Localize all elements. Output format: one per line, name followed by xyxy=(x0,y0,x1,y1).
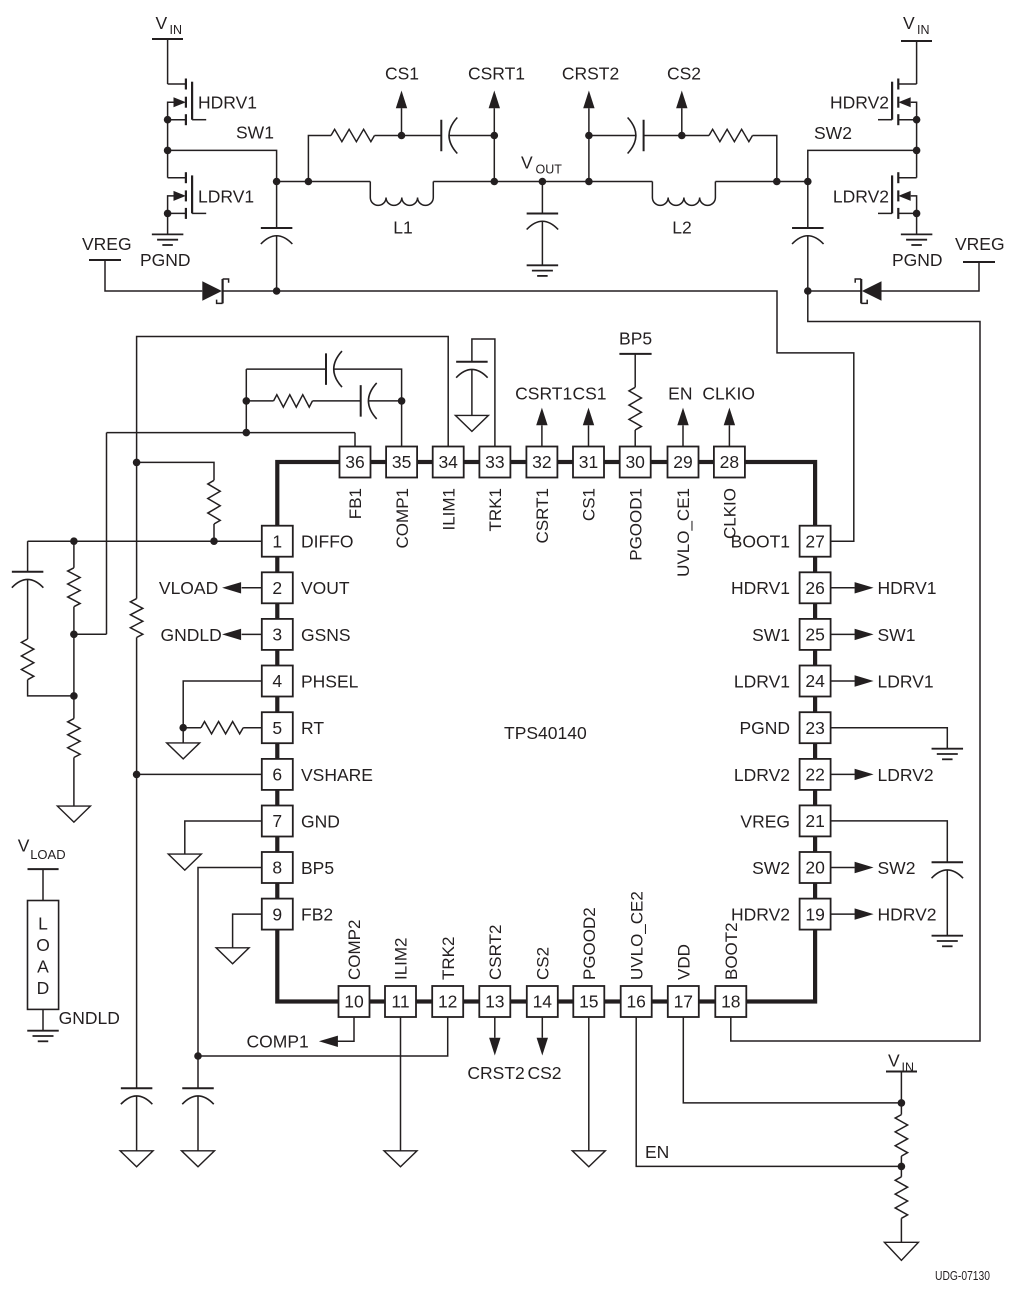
svg-text:HDRV1: HDRV1 xyxy=(878,578,937,598)
resistor R6 feed-forward xyxy=(21,639,33,680)
ground GND pin xyxy=(168,854,201,870)
wire R8 to ground xyxy=(73,758,75,807)
svg-text:9: 9 xyxy=(272,904,282,924)
wire R11 to R12 xyxy=(900,1156,902,1177)
svg-text:3: 3 xyxy=(272,625,282,645)
wire R9 to pin 5 xyxy=(243,727,262,729)
svg-text:30: 30 xyxy=(625,452,645,472)
wire pin35 COMP1 stub xyxy=(401,401,403,447)
wire Q1 source to SW1 node xyxy=(167,120,169,178)
label LDRV2 (Q4) xyxy=(833,186,889,206)
svg-text:HDRV2: HDRV2 xyxy=(878,905,937,925)
arrow CS1 xyxy=(396,91,407,136)
capacitor C3 output xyxy=(527,182,559,266)
wire Q4 source to PGND xyxy=(916,213,918,234)
svg-text:HDRV1: HDRV1 xyxy=(731,578,790,598)
resistor R4 PGOOD1 pull-up xyxy=(629,387,641,430)
arrow CSRT2 down (pin 13) xyxy=(489,1017,500,1056)
svg-text:22: 22 xyxy=(805,765,824,785)
resistor R11 UVLO divider top xyxy=(895,1115,907,1157)
ground UVLO divider xyxy=(884,1242,918,1260)
wire VIN to R11 xyxy=(900,1072,902,1115)
svg-text:UDG-07130: UDG-07130 xyxy=(935,1268,990,1283)
wire pin15 PGOOD2 to ground xyxy=(588,1017,590,1151)
ground PGND pin xyxy=(932,749,964,760)
svg-text:10: 10 xyxy=(344,992,364,1012)
label CS2 net (bottom) xyxy=(528,1063,562,1083)
resistor R2 current sense (channel 2) xyxy=(709,129,752,141)
resistor R12 UVLO divider bottom xyxy=(895,1177,907,1219)
svg-text:CSRT1: CSRT1 xyxy=(468,64,525,84)
ground PGOOD2 xyxy=(572,1151,605,1167)
svg-text:29: 29 xyxy=(673,452,692,472)
junction ILIM1/feedback resistor xyxy=(133,459,141,467)
svg-text:BOOT1: BOOT1 xyxy=(731,532,790,552)
label CSRT1 net (top) xyxy=(515,384,572,404)
arrow CSRT1 xyxy=(489,91,500,136)
svg-text:12: 12 xyxy=(438,992,457,1012)
svg-text:HDRV2: HDRV2 xyxy=(830,93,889,113)
svg-text:CLKIO: CLKIO xyxy=(702,384,755,404)
svg-text:GND: GND xyxy=(301,811,340,831)
wire pin23 PGND xyxy=(831,728,948,749)
node SW2 xyxy=(804,123,852,185)
svg-text:7: 7 xyxy=(272,811,282,831)
resistor R9 RT xyxy=(201,722,243,734)
svg-text:CS2: CS2 xyxy=(667,64,701,84)
wire pin11 ILIM2 to ground xyxy=(400,1017,402,1151)
op-amp U1 TPS40140 controller body xyxy=(277,462,815,1002)
svg-text:15: 15 xyxy=(579,992,598,1012)
wire R1 to CS1 node xyxy=(375,135,402,137)
svg-text:14: 14 xyxy=(533,992,553,1012)
svg-text:8: 8 xyxy=(272,858,282,878)
wire pin36 FB1 stub xyxy=(354,433,356,447)
svg-text:RT: RT xyxy=(301,718,324,738)
label LDRV1 net (right) xyxy=(878,671,934,691)
svg-text:SW1: SW1 xyxy=(236,123,274,143)
wire DIFFO line (pin 1) xyxy=(28,540,262,542)
svg-text:L: L xyxy=(38,914,48,934)
svg-text:HDRV2: HDRV2 xyxy=(731,905,790,925)
svg-text:COMP2: COMP2 xyxy=(345,920,364,980)
svg-text:LDRV1: LDRV1 xyxy=(878,671,934,691)
svg-text:36: 36 xyxy=(345,452,364,472)
junction divider low tap xyxy=(70,692,78,700)
svg-text:18: 18 xyxy=(721,992,740,1012)
node VLOAD source xyxy=(18,836,66,870)
wire R6 to divider tap xyxy=(28,680,74,696)
svg-text:VDD: VDD xyxy=(675,944,694,980)
svg-text:13: 13 xyxy=(485,992,504,1012)
wire CS2 to R2 xyxy=(682,135,709,137)
svg-text:ILIM2: ILIM2 xyxy=(392,937,411,980)
wire CRST2 to VOUT line xyxy=(585,136,593,186)
svg-text:25: 25 xyxy=(805,625,824,645)
svg-text:CS1: CS1 xyxy=(385,64,419,84)
capacitor C8 soft-start TRK1 xyxy=(456,362,488,416)
ground ILIM2 xyxy=(384,1151,417,1167)
svg-text:VREG: VREG xyxy=(740,811,790,831)
ground TRK1 cap xyxy=(455,415,488,431)
label EN net (top) xyxy=(668,384,692,404)
svg-text:35: 35 xyxy=(392,452,411,472)
junction FB1 tap xyxy=(70,631,78,639)
svg-text:PHSEL: PHSEL xyxy=(301,671,359,691)
ground C12 xyxy=(932,936,964,947)
wire pin21 VREG to C12 xyxy=(831,821,948,862)
wire VOUT line (L1 to L2) xyxy=(433,181,652,183)
svg-text:11: 11 xyxy=(391,992,409,1012)
wire pin33 TRK1 stub xyxy=(472,339,495,447)
svg-text:D: D xyxy=(37,978,50,998)
wire R4 to pin 30 xyxy=(634,430,636,447)
wire R5 branch xyxy=(137,462,214,480)
svg-text:33: 33 xyxy=(485,452,504,472)
svg-text:UVLO_CE1: UVLO_CE1 xyxy=(674,488,693,577)
ground output cap xyxy=(527,265,559,276)
svg-text:PGOOD2: PGOOD2 xyxy=(580,907,599,980)
wire pin9 FB2 xyxy=(233,914,262,948)
arrow CLKIO (pin 28) xyxy=(724,408,735,447)
U1 top pin-name labels (rotated) xyxy=(346,488,739,577)
svg-text:UVLO_CE2: UVLO_CE2 xyxy=(627,891,646,980)
junction Q2 source/body xyxy=(164,210,172,218)
junction SW1 side of L1 xyxy=(305,178,313,186)
resistor R10 ILIM1 rail xyxy=(130,599,142,638)
svg-text:PGND: PGND xyxy=(140,250,191,270)
svg-text:V: V xyxy=(18,836,30,856)
node BP5 supply xyxy=(619,329,652,354)
resistor R3 compensation xyxy=(274,395,313,407)
svg-text:16: 16 xyxy=(626,992,645,1012)
junction EN tap xyxy=(898,1163,906,1171)
arrow EN (pin 29) xyxy=(677,408,688,447)
svg-text:FB2: FB2 xyxy=(301,905,333,925)
junction SW1/C1 xyxy=(273,178,281,186)
U1 right pin-name labels xyxy=(731,532,790,925)
wire SW1 node to L1 xyxy=(277,181,371,183)
arrow GNDLD (pin 3) xyxy=(222,629,262,640)
arrow CSRT1 (pin 32) xyxy=(536,408,547,447)
svg-text:V: V xyxy=(903,13,915,33)
svg-text:4: 4 xyxy=(272,671,282,691)
svg-text:LDRV1: LDRV1 xyxy=(734,671,790,691)
label GNDLD xyxy=(59,1008,120,1028)
svg-text:LDRV1: LDRV1 xyxy=(198,186,254,206)
svg-text:SW2: SW2 xyxy=(814,123,852,143)
svg-text:19: 19 xyxy=(805,904,824,924)
wire C7 to COMP1 node xyxy=(369,400,402,402)
node A compensation (FB1) xyxy=(243,429,251,437)
junction DIFFO/R5 xyxy=(210,537,218,545)
svg-text:VSHARE: VSHARE xyxy=(301,765,373,785)
wire VIN to Q3 drain xyxy=(916,41,918,84)
svg-text:PGOOD1: PGOOD1 xyxy=(626,488,645,561)
label CRST2 net (bottom) xyxy=(467,1063,524,1083)
svg-text:GNDLD: GNDLD xyxy=(161,625,222,645)
svg-text:O: O xyxy=(36,935,50,955)
junction Q4 source/body xyxy=(913,210,921,218)
arrow VLOAD (pin 2) xyxy=(222,582,262,593)
svg-text:6: 6 xyxy=(272,765,282,785)
svg-text:VREG: VREG xyxy=(955,234,1005,254)
svg-text:31: 31 xyxy=(579,452,598,472)
wire divider mid xyxy=(73,607,75,719)
junction DIFFO/divider xyxy=(70,537,78,545)
wire R3 to C7 xyxy=(313,400,361,402)
resistor R7 feedback divider top xyxy=(68,568,80,607)
U1 left pin-name labels xyxy=(301,532,373,925)
svg-text:PGND: PGND xyxy=(892,250,943,270)
label CS1 net (top) xyxy=(572,384,606,404)
label HDRV2 (Q3) xyxy=(830,93,889,113)
wire RT node to ground xyxy=(182,728,184,743)
wire FB1 tap to FB1 net xyxy=(74,633,107,635)
wire pin10 COMP2 to COMP1 arrow xyxy=(337,1017,354,1041)
wire SW1 to bootstrap cap C1 xyxy=(168,150,277,181)
wire FB1 net xyxy=(107,433,356,635)
arrow CRST2 xyxy=(583,91,594,136)
wire comp lower branch left xyxy=(246,400,273,402)
wire VLOAD to LOAD xyxy=(42,869,44,900)
wire DIFFO corner to C9 xyxy=(27,541,29,572)
arrow LDRV2 output (pin 22) xyxy=(831,769,874,780)
wire divider top xyxy=(73,541,75,568)
arrow CS1 (pin 31) xyxy=(583,408,594,447)
node SW1 xyxy=(164,123,274,155)
arrow SW2 output (pin 20) xyxy=(831,862,874,873)
wire CRST2 to C4 xyxy=(589,135,636,137)
resistor R5 ILIM1 set xyxy=(208,480,220,524)
junction VSHARE/ILIM1 rail xyxy=(133,771,141,779)
node VIN (channel 1 input supply) xyxy=(152,13,183,39)
wire pin17 VDD to VIN xyxy=(683,1017,901,1103)
svg-text:COMP1: COMP1 xyxy=(393,488,412,548)
junction Q3 source/body xyxy=(913,116,921,124)
wire pin16 UVLO_CE2 EN net xyxy=(636,1017,901,1166)
svg-text:26: 26 xyxy=(805,578,824,598)
svg-text:21: 21 xyxy=(805,811,824,831)
svg-text:1: 1 xyxy=(272,531,282,551)
wire C5 to D2 cathode xyxy=(808,290,861,292)
junction comp lower branch xyxy=(243,397,251,405)
wire SW1 to R1 xyxy=(308,136,331,182)
wire Q3 source to SW2 xyxy=(916,120,918,178)
svg-text:20: 20 xyxy=(805,858,825,878)
label LDRV2 net (right) xyxy=(878,765,934,785)
label HDRV2 net (right) xyxy=(878,905,937,925)
wire L2 to SW2 node xyxy=(715,181,807,183)
svg-text:LDRV2: LDRV2 xyxy=(833,186,889,206)
svg-text:BP5: BP5 xyxy=(619,329,652,349)
svg-text:TPS40140: TPS40140 xyxy=(504,723,587,743)
svg-text:SW1: SW1 xyxy=(752,625,790,645)
svg-text:CSRT2: CSRT2 xyxy=(486,925,505,980)
svg-text:GNDLD: GNDLD xyxy=(59,1008,120,1028)
wire SW2 node to Q3/Q4 rail xyxy=(808,147,921,182)
label U1 TPS40140 xyxy=(504,723,587,743)
svg-text:CS1: CS1 xyxy=(580,488,599,521)
wire pin8 BP5 xyxy=(198,868,262,1089)
junction Q1 source/body xyxy=(164,116,172,124)
wire VREG to D2 anode xyxy=(882,262,980,291)
label UDG-07130 xyxy=(935,1268,990,1283)
wire RT node xyxy=(179,724,201,732)
wire LOAD to GNDLD xyxy=(42,1009,44,1030)
wire pin12 TRK2 to BP5 xyxy=(198,1017,448,1056)
svg-text:HDRV1: HDRV1 xyxy=(198,93,257,113)
transistor Q2 LDRV1 low-side NFET xyxy=(168,172,207,219)
node COMP1 (pin 35) xyxy=(398,397,406,405)
ground C11 xyxy=(182,1151,215,1167)
svg-text:34: 34 xyxy=(438,452,458,472)
svg-text:GSNS: GSNS xyxy=(301,625,351,645)
wire Q2 source to PGND xyxy=(167,213,169,234)
wire D1 cathode to C1 xyxy=(223,290,277,292)
node VIN (channel 2 input supply) xyxy=(901,13,932,41)
U1 pin boxes with pin numbers xyxy=(262,447,831,1018)
svg-text:TRK1: TRK1 xyxy=(486,488,505,531)
svg-text:ILIM1: ILIM1 xyxy=(439,488,458,531)
svg-text:IN: IN xyxy=(917,23,930,37)
node CRST2 xyxy=(562,64,619,140)
arrow HDRV2 output (pin 19) xyxy=(831,908,874,919)
label CLKIO net (top) xyxy=(702,384,755,404)
ground PGND (channel 2) xyxy=(892,234,943,269)
capacitor C2 current sense (channel 1) xyxy=(441,118,457,154)
wire R2 to SW2 side of L2 xyxy=(753,136,781,186)
wire BP5 to R4 xyxy=(634,354,636,387)
capacitor C12 VREG bypass xyxy=(932,862,964,936)
transistor Q3 HDRV2 high-side NFET xyxy=(878,79,917,126)
capacitor C4 current sense (channel 2) xyxy=(628,118,644,154)
ground feedback divider xyxy=(57,806,90,822)
svg-text:L2: L2 xyxy=(672,218,691,238)
svg-text:27: 27 xyxy=(805,531,824,551)
inductor L2 xyxy=(652,182,715,238)
block LOAD xyxy=(28,901,59,1010)
wire ILIM1 rail lower xyxy=(136,638,138,1089)
junction VDD/VIN xyxy=(898,1099,906,1107)
svg-text:EN: EN xyxy=(645,1142,669,1162)
svg-text:L1: L1 xyxy=(393,218,412,238)
svg-text:28: 28 xyxy=(720,452,739,472)
wire C2 to CSRT1 node xyxy=(449,135,494,137)
svg-text:FB1: FB1 xyxy=(346,488,365,519)
svg-text:17: 17 xyxy=(674,992,693,1012)
wire pin4 PHSEL to RT node xyxy=(183,681,262,728)
svg-text:BP5: BP5 xyxy=(301,858,334,878)
svg-text:OUT: OUT xyxy=(536,163,563,177)
svg-text:5: 5 xyxy=(272,718,282,738)
wire comp top branch right xyxy=(334,369,402,401)
node VOUT xyxy=(521,153,562,186)
wire VIN to Q1 drain xyxy=(167,39,169,84)
capacitor C1 bootstrap (channel 1) xyxy=(261,182,293,292)
svg-text:SW2: SW2 xyxy=(878,858,916,878)
wire pin6 VSHARE xyxy=(137,773,262,775)
svg-text:CS2: CS2 xyxy=(528,1063,562,1083)
wire node A to comp network xyxy=(245,369,247,433)
diode D1 schottky bootstrap xyxy=(202,279,228,303)
transistor Q4 LDRV2 low-side NFET xyxy=(878,172,917,219)
capacitor C7 compensation xyxy=(361,383,377,419)
node VREG (channel 2) xyxy=(955,234,1005,262)
svg-text:32: 32 xyxy=(532,452,551,472)
wire CS1 to C2 xyxy=(402,135,442,137)
node CS1 xyxy=(385,64,419,140)
resistor R1 current sense (channel 1) xyxy=(331,129,374,141)
arrow CS2 down (pin 14) xyxy=(537,1017,548,1056)
capacitor C10 VSHARE filter xyxy=(121,1088,153,1151)
U1 bottom pin-name labels (rotated) xyxy=(345,891,741,980)
svg-text:V: V xyxy=(521,153,533,173)
label COMP1 net xyxy=(247,1032,309,1052)
wire R12 to ground xyxy=(900,1218,902,1242)
svg-text:VREG: VREG xyxy=(82,234,132,254)
svg-text:COMP1: COMP1 xyxy=(247,1032,309,1052)
svg-text:SW1: SW1 xyxy=(878,625,916,645)
wire pin34 ILIM1 to left rail xyxy=(137,337,449,599)
arrow COMP1 (from pin 10) xyxy=(319,1036,338,1047)
ground RT xyxy=(167,743,200,759)
arrow SW1 output (pin 25) xyxy=(831,629,874,640)
svg-text:CSRT1: CSRT1 xyxy=(515,384,572,404)
label HDRV1 (Q1) xyxy=(198,93,257,113)
ground FB2 xyxy=(216,948,249,964)
resistor R8 feedback divider bottom xyxy=(68,719,80,758)
capacitor C9 feed-forward xyxy=(12,572,43,639)
svg-text:V: V xyxy=(888,1051,900,1071)
svg-text:IN: IN xyxy=(170,23,183,37)
wire C4 to CS2 node xyxy=(644,135,682,137)
label HDRV1 net (right) xyxy=(878,578,937,598)
svg-text:TRK2: TRK2 xyxy=(439,937,458,980)
svg-text:VOUT: VOUT xyxy=(301,578,350,598)
svg-text:CRST2: CRST2 xyxy=(467,1063,524,1083)
svg-text:LOAD: LOAD xyxy=(30,847,65,862)
svg-text:SW2: SW2 xyxy=(752,858,790,878)
svg-text:V: V xyxy=(156,13,168,33)
wire CSRT1 to VOUT line xyxy=(491,136,499,186)
svg-text:24: 24 xyxy=(805,671,825,691)
junction BP5/TRK2 xyxy=(194,1052,202,1060)
label LDRV1 (Q2) xyxy=(198,186,254,206)
svg-text:BOOT2: BOOT2 xyxy=(722,922,741,980)
label VLOAD net xyxy=(159,578,218,598)
arrow CS2 xyxy=(676,91,687,136)
ground C10 xyxy=(120,1151,153,1167)
capacitor C11 BP5 bypass xyxy=(182,1088,214,1151)
wire BOOT1 net to pin 27 xyxy=(277,291,854,541)
svg-text:CS2: CS2 xyxy=(534,947,553,980)
node VREG (channel 1) xyxy=(82,234,132,260)
svg-text:LDRV2: LDRV2 xyxy=(734,765,790,785)
wire VREG to D1 anode xyxy=(105,260,202,291)
ground GNDLD xyxy=(27,1031,59,1042)
node CSRT1 xyxy=(468,64,525,140)
svg-text:EN: EN xyxy=(668,384,692,404)
svg-text:LDRV2: LDRV2 xyxy=(878,765,934,785)
svg-text:VLOAD: VLOAD xyxy=(159,578,218,598)
ground PGND (channel 1) xyxy=(140,234,191,269)
inductor L1 xyxy=(370,182,433,238)
arrow HDRV1 output (pin 26) xyxy=(831,582,874,593)
svg-text:23: 23 xyxy=(805,718,824,738)
node CS2 xyxy=(667,64,701,140)
node VIN (bottom bias supply) xyxy=(886,1051,917,1075)
